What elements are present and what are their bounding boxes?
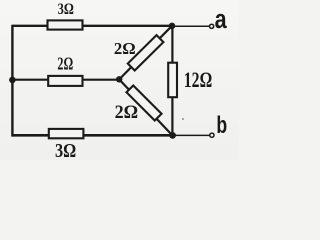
svg-text:2Ω: 2Ω: [115, 102, 139, 123]
svg-text:3Ω: 3Ω: [58, 0, 74, 18]
svg-text:12Ω: 12Ω: [184, 68, 212, 92]
svg-text:b: b: [216, 112, 227, 139]
svg-text:2Ω: 2Ω: [57, 54, 73, 74]
svg-text:3Ω: 3Ω: [55, 140, 76, 160]
svg-text:a: a: [215, 4, 227, 34]
svg-text:2Ω: 2Ω: [114, 39, 136, 58]
